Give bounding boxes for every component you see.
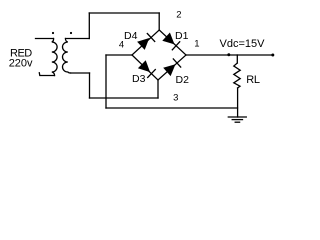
wire bridge bottom apex down (157, 80, 159, 98)
svg-text:D2: D2 (176, 74, 190, 86)
transformer T1 secondary winding (63, 39, 71, 74)
resistor RL zigzag (234, 63, 240, 88)
svg-text:D4: D4 (124, 30, 138, 42)
wire primary top terminal (36, 38, 54, 40)
wire output node 1 to right (186, 54, 273, 56)
svg-text:220v: 220v (9, 58, 33, 70)
wire node 4 to left (106, 54, 132, 56)
diode D1 triangle (162, 33, 174, 45)
terminal dot output right (271, 54, 274, 57)
svg-text:RL: RL (246, 74, 260, 86)
diode D4 cathode bar (147, 34, 154, 42)
bridge edge left-top (132, 30, 159, 55)
diode D2 triangle (163, 64, 175, 76)
ground bar 3 (235, 121, 239, 123)
diode D3 cathode bar (148, 70, 156, 78)
bridge edge top-right (159, 30, 186, 55)
svg-text:1: 1 (194, 38, 199, 49)
ground bar 2 (232, 119, 242, 121)
svg-text:Vdc=15V: Vdc=15V (220, 38, 266, 50)
wire secondary bottom (71, 72, 90, 74)
transformer T1 primary winding (52, 39, 57, 76)
transformer primary polarity dot (52, 32, 54, 34)
bridge edge bottom-right (158, 55, 186, 80)
wire down to bridge top apex (158, 13, 160, 30)
wire primary bottom terminal (39, 73, 54, 76)
diode D4 triangle (137, 38, 149, 50)
wire secondary top to riser (66, 38, 90, 40)
svg-text:3: 3 (173, 93, 178, 104)
wire secondary bottom riser down (89, 73, 91, 98)
wire AC bottom horizontal to node 3 (90, 97, 159, 99)
junction dot node 1 (227, 53, 230, 56)
ground bar 1 (228, 116, 246, 118)
diode D3 triangle (138, 60, 150, 72)
svg-text:D1: D1 (175, 30, 189, 42)
diode D1 cathode bar (172, 42, 179, 50)
svg-text:2: 2 (176, 9, 181, 20)
diode D2 cathode bar (173, 59, 180, 67)
svg-text:4: 4 (119, 39, 124, 50)
wire RL bottom to ground (237, 88, 239, 117)
wire return riser down (105, 55, 107, 108)
wire RL top tap (236, 55, 238, 63)
wire return bottom horizontal (106, 107, 238, 109)
wire top horizontal to node 2 (89, 12, 159, 14)
transformer secondary polarity dot (70, 32, 72, 34)
bridge edge left-bottom (132, 55, 158, 80)
svg-text:D3: D3 (132, 73, 146, 85)
wire riser secondary top up (88, 13, 90, 39)
